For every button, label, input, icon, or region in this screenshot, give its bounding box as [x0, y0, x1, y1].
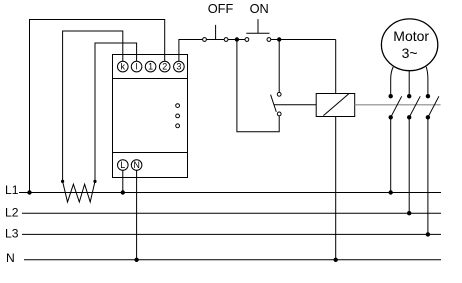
wire terminal 3 to OFF button: [179, 40, 202, 62]
coil diagonal: [323, 94, 348, 116]
contact 2 lower terminal dot: [407, 115, 411, 119]
svg-text:3~: 3~: [402, 45, 418, 61]
main control wire segments: [202, 39, 247, 41]
junction dot contact3 on L3: [426, 232, 430, 236]
contactor main contact 1 blade: [391, 96, 402, 117]
resistor shunt in L1: [63, 181, 95, 202]
wire contact3 to L3: [427, 117, 429, 234]
svg-text:L3: L3: [5, 227, 19, 241]
OFF button stem: [215, 25, 217, 40]
rail L1: [19, 192, 441, 194]
svg-text:N: N: [6, 251, 15, 265]
relay aux contact upper terminal: [277, 92, 281, 96]
wire terminal N to N rail: [136, 170, 138, 259]
junction dot L on L1: [121, 190, 125, 194]
junction dot shunt left: [61, 180, 64, 183]
relay aux contact blade: [271, 95, 277, 112]
svg-text:OFF: OFF: [208, 1, 234, 16]
junction dot L1 left: [27, 190, 31, 194]
ON button stem: [257, 19, 259, 33]
svg-text:ON: ON: [250, 1, 269, 16]
svg-text:L2: L2: [5, 206, 19, 220]
terminal N: [131, 160, 142, 171]
contactor coil K1: [316, 94, 355, 117]
ON button bar: [246, 32, 269, 34]
contact 2 upper terminal dot: [407, 94, 411, 98]
rail N: [24, 259, 441, 261]
motor lead right: [426, 67, 428, 96]
terminal L: [118, 160, 129, 171]
wire terminal l to shunt right: [95, 43, 137, 181]
junction dot shunt right: [93, 180, 96, 183]
wire terminal2 to L1: [30, 20, 165, 193]
wire terminal L to L1: [122, 170, 124, 192]
OFF contact right terminal: [224, 38, 228, 42]
contact 3 upper terminal dot: [426, 94, 430, 98]
device bottom terminal strip line: [113, 152, 188, 154]
junction dot after ON: [277, 37, 281, 41]
svg-text:Motor: Motor: [393, 28, 429, 44]
wire contact1 to L1: [390, 117, 392, 192]
terminal 1: [145, 61, 156, 72]
wire terminal k to shunt left: [63, 31, 123, 181]
svg-text:l: l: [136, 62, 138, 72]
wire coil bottom to N: [335, 117, 337, 260]
svg-text:1: 1: [148, 62, 153, 72]
device top terminal strip line: [113, 78, 188, 80]
svg-text:N: N: [133, 160, 140, 170]
terminal l: [131, 61, 142, 72]
ON contact right terminal: [267, 38, 271, 42]
junction dot contact2 on L2: [407, 211, 411, 215]
ON contact left terminal: [245, 38, 249, 42]
terminal 3: [174, 61, 185, 72]
junction dot N on N rail: [134, 258, 138, 262]
OFF contact left terminal: [203, 38, 207, 42]
junction dot after OFF: [235, 37, 239, 41]
contactor main contact 3 blade: [428, 96, 439, 117]
motor lead middle: [408, 71, 410, 97]
wire junction to self-hold branch: [237, 40, 279, 132]
wire to relay aux contact: [278, 40, 280, 93]
rail L2: [22, 212, 441, 214]
contact 3 lower terminal dot: [426, 115, 430, 119]
motor M1: [381, 19, 437, 71]
contactor main contact 2 blade: [409, 96, 420, 117]
device outline: [113, 55, 188, 178]
contact 1 upper terminal dot: [389, 94, 393, 98]
LED indicator 3: [176, 124, 180, 128]
terminal k: [118, 61, 129, 72]
svg-text:L1: L1: [5, 183, 19, 197]
rail L3: [22, 233, 441, 235]
mechanical link line: [355, 104, 441, 106]
svg-text:L: L: [120, 160, 125, 170]
wire blade to coil: [274, 104, 316, 106]
motor lead left: [391, 67, 394, 96]
svg-text:k: k: [121, 62, 126, 72]
wire contact2 to L2: [408, 117, 410, 213]
svg-text:3: 3: [176, 62, 181, 72]
wire coil top: [335, 40, 337, 94]
terminal 2: [159, 61, 170, 72]
contact 1 lower terminal dot: [389, 115, 393, 119]
junction dot contact1 on L1: [389, 190, 393, 194]
relay aux contact lower terminal: [277, 112, 281, 116]
LED indicator 1: [176, 104, 180, 108]
svg-text:2: 2: [162, 62, 167, 72]
LED indicator 2: [176, 114, 180, 118]
junction dot coil on N rail: [334, 258, 338, 262]
